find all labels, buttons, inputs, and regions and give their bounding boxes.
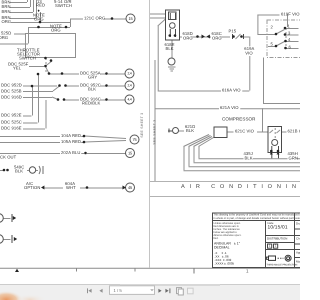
svg-text:fied.: fied.	[214, 237, 219, 240]
svg-text:DDC 525B: DDC 525B	[1, 88, 22, 93]
svg-text:RED/BLK: RED/BLK	[82, 101, 101, 106]
svg-text:BLK: BLK	[166, 46, 174, 51]
svg-text:DECIMAL: DECIMAL	[214, 246, 230, 250]
svg-text:1: 1	[246, 268, 249, 273]
svg-text:2,4: 2,4	[127, 84, 131, 88]
svg-text:ORG: ORG	[2, 19, 12, 24]
svg-text:DDC 952D: DDC 952D	[1, 82, 22, 87]
svg-text:CK OUT: CK OUT	[0, 154, 17, 159]
svg-text:P15: P15	[229, 28, 237, 33]
svg-text:ORG: ORG	[0, 35, 8, 40]
svg-text:621A VIO: 621A VIO	[220, 105, 239, 110]
svg-text:AIR CONDITIONING: AIR CONDITIONING	[181, 184, 300, 190]
svg-text:SEE SHEET 3: SEE SHEET 3	[140, 113, 144, 138]
svg-text:ORG: ORG	[51, 27, 61, 32]
svg-text:DDC 952E: DDC 952E	[1, 112, 22, 117]
svg-text:619F VIO: 619F VIO	[281, 11, 300, 16]
svg-text:OPTION: OPTION	[24, 185, 40, 190]
svg-text:616A VIO: 616A VIO	[222, 87, 241, 92]
svg-text:GRY: GRY	[88, 75, 97, 80]
svg-text:DDC 916D: DDC 916D	[1, 94, 22, 99]
svg-text:621C VIO: 621C VIO	[235, 128, 255, 133]
svg-text:105A RED: 105A RED	[61, 139, 81, 144]
svg-text:Drawn: Drawn	[296, 221, 300, 225]
svg-text:BLK: BLK	[245, 155, 253, 160]
svg-text:DDC 525C: DDC 525C	[1, 119, 22, 124]
svg-text:GRN: GRN	[289, 155, 299, 160]
svg-text:BRN: BRN	[2, 9, 11, 14]
svg-text:YEL: YEL	[13, 66, 22, 71]
svg-text:2,4: 2,4	[127, 72, 131, 76]
svg-text:RED: RED	[36, 3, 45, 8]
svg-text:COMPRESSOR: COMPRESSOR	[222, 117, 256, 122]
svg-text:BLK: BLK	[88, 87, 96, 92]
svg-text:Chec: Chec	[296, 236, 300, 240]
svg-text:ORG: ORG	[183, 35, 193, 40]
svg-text:621B GRN: 621B GRN	[288, 128, 301, 133]
svg-text:1 / 5: 1 / 5	[114, 288, 123, 293]
svg-text:BLK: BLK	[15, 169, 23, 174]
svg-text:Date: Date	[268, 221, 274, 225]
svg-text:202A BLU: 202A BLU	[61, 150, 80, 155]
svg-text:121C ORG: 121C ORG	[84, 15, 105, 20]
svg-text:WHT: WHT	[66, 185, 76, 190]
svg-text:10/15/01: 10/15/01	[268, 225, 288, 231]
svg-text:DISTRIBUTION: DISTRIBUTION	[267, 236, 287, 240]
svg-text:104A RED: 104A RED	[61, 133, 81, 138]
svg-text:DDC 916E: DDC 916E	[1, 125, 22, 130]
svg-text:in whole or in part, of design: in whole or in part, of design and detai…	[214, 217, 301, 220]
svg-text:ORG: ORG	[34, 17, 44, 22]
svg-text:Appr: Appr	[296, 250, 300, 254]
svg-text:BLK: BLK	[186, 128, 194, 133]
svg-text:4,4: 4,4	[127, 98, 131, 102]
svg-text:SWITCH: SWITCH	[55, 3, 72, 8]
svg-text:Mate: Mate	[296, 259, 300, 263]
svg-text:VIO: VIO	[245, 50, 253, 55]
svg-text:.XXXX ± .0005: .XXXX ± .0005	[215, 261, 235, 265]
svg-text:ORG: ORG	[212, 35, 222, 40]
svg-text:THIRD ANGLE PROJECTION: THIRD ANGLE PROJECTION	[267, 263, 298, 266]
svg-text:SEE SHEET 3: SEE SHEET 3	[153, 120, 157, 145]
svg-text:SWITCH: SWITCH	[19, 56, 36, 61]
